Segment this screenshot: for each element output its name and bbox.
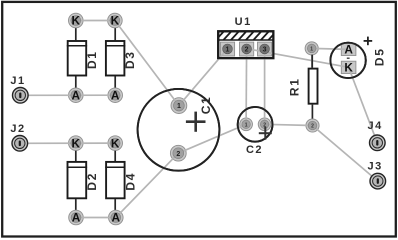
svg-text:K: K	[344, 60, 353, 74]
svg-text:D3: D3	[123, 50, 137, 69]
svg-text:J1: J1	[10, 75, 25, 87]
svg-text:C2: C2	[246, 144, 263, 156]
svg-text:K: K	[111, 14, 120, 28]
svg-text:R1: R1	[287, 78, 301, 97]
svg-text:A: A	[344, 43, 353, 57]
svg-text:J2: J2	[10, 123, 25, 135]
svg-text:K: K	[72, 136, 81, 150]
svg-text:A: A	[72, 211, 81, 225]
svg-text:3: 3	[263, 46, 267, 53]
svg-text:A: A	[72, 88, 81, 102]
svg-text:K: K	[111, 136, 120, 150]
svg-text:A: A	[111, 88, 120, 102]
svg-text:1: 1	[226, 46, 230, 53]
svg-text:D2: D2	[85, 172, 99, 191]
svg-text:2: 2	[311, 124, 314, 130]
svg-text:2: 2	[245, 46, 249, 53]
svg-text:J4: J4	[367, 120, 382, 132]
svg-text:A: A	[112, 211, 121, 225]
svg-text:D1: D1	[85, 50, 99, 69]
svg-text:1: 1	[245, 122, 248, 128]
svg-text:2: 2	[176, 151, 180, 158]
svg-text:D5: D5	[372, 48, 386, 67]
svg-text:U1: U1	[235, 16, 252, 28]
svg-text:J3: J3	[367, 160, 382, 172]
svg-text:K: K	[72, 14, 81, 28]
svg-text:1: 1	[310, 47, 313, 53]
svg-text:C1: C1	[199, 96, 213, 115]
svg-text:D4: D4	[123, 172, 137, 191]
svg-text:1: 1	[177, 103, 181, 110]
